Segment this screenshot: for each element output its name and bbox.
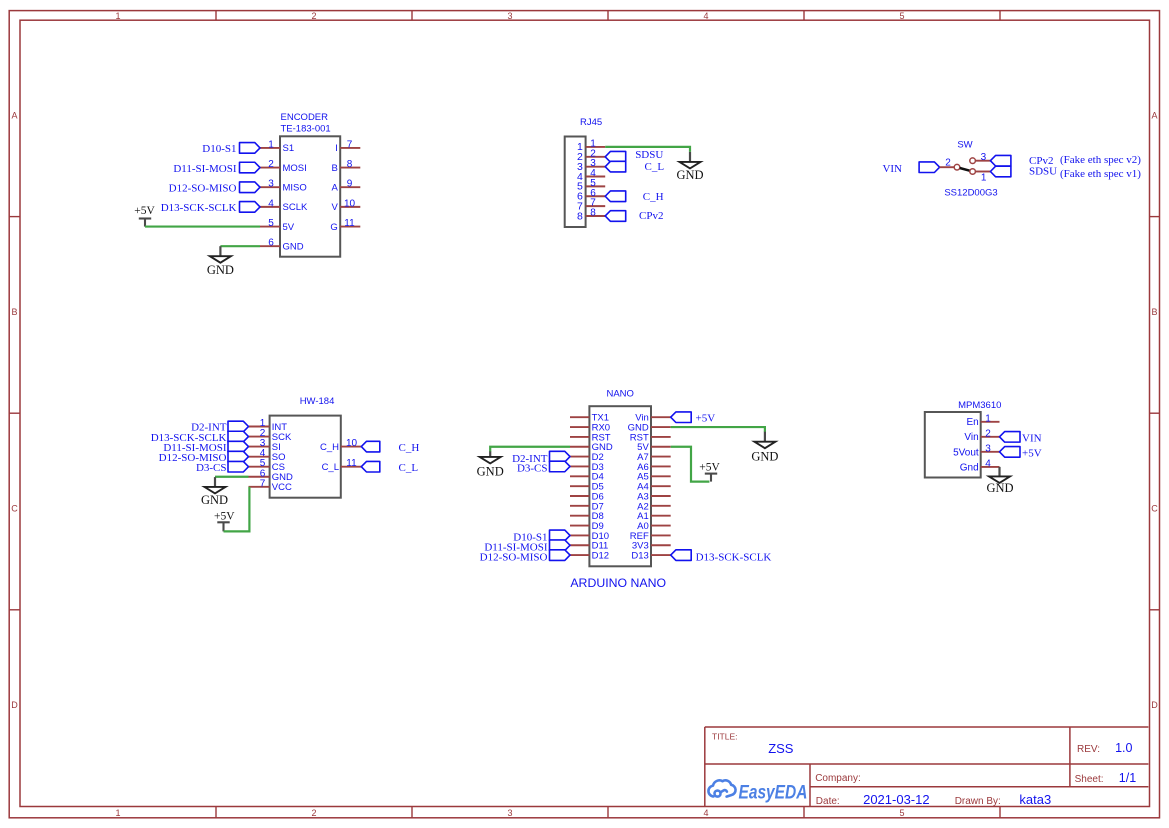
net port D11-SI-MOSI (173, 162, 260, 175)
svg-text:GND: GND (201, 493, 228, 507)
RJ45 pin 3 (577, 158, 605, 173)
svg-text:2021-03-12: 2021-03-12 (863, 792, 930, 807)
svg-text:S1: S1 (283, 143, 295, 154)
net port D2-INT (nano) (512, 451, 570, 465)
ground symbol (mpm3610) (986, 467, 1013, 495)
svg-text:C_L: C_L (322, 462, 339, 473)
svg-text:D10-S1: D10-S1 (202, 143, 236, 155)
svg-text:MPM3610: MPM3610 (958, 400, 1001, 411)
svg-text:2: 2 (985, 428, 991, 439)
NANO left pin D9 (570, 521, 604, 532)
MPM3610 pin 1 En (966, 413, 999, 428)
connector ENCODER TE-183-001 (280, 112, 340, 257)
svg-text:ARDUINO NANO: ARDUINO NANO (570, 576, 666, 590)
svg-text:+5V: +5V (696, 413, 716, 425)
NANO right pin A2 (637, 501, 671, 512)
RJ45 pin 5 (577, 178, 605, 193)
MPM3610 pin 2 Vin (964, 428, 999, 443)
NANO right pin 3V3 (632, 541, 671, 552)
RJ45 pin 8 (577, 207, 605, 222)
net port D12-SO-MISO (hw-184) (159, 451, 249, 464)
ENCODER pin 9 A (331, 179, 360, 194)
NANO right pin A1 (637, 511, 671, 522)
HW-184 pin 7 VCC (249, 478, 292, 493)
RJ45 pin 7 (577, 198, 605, 213)
svg-text:GND: GND (751, 449, 778, 463)
svg-text:B: B (331, 163, 337, 174)
svg-text:I: I (335, 143, 338, 154)
svg-text:8: 8 (590, 207, 596, 218)
svg-text:B: B (1151, 307, 1157, 317)
svg-text:MOSI: MOSI (283, 163, 307, 174)
wire RJ45 pin1 to GND (605, 147, 690, 152)
wire nano 5V to +5V (671, 447, 710, 482)
svg-text:8: 8 (577, 210, 583, 222)
ENCODER pin 3 MISO (260, 179, 307, 194)
svg-text:D13: D13 (631, 551, 648, 562)
svg-text:6: 6 (268, 238, 274, 249)
svg-text:+5V: +5V (134, 205, 155, 217)
svg-text:GND: GND (676, 168, 703, 182)
HW-184 pin 10 C_H (320, 438, 361, 453)
+5V power symbol (hw-184) (214, 511, 235, 532)
svg-text:5: 5 (899, 11, 904, 21)
svg-text:CPv2: CPv2 (639, 210, 663, 222)
net port D10-S1 (nano) (513, 530, 570, 544)
svg-text:C: C (11, 504, 18, 514)
net port +5V (mpm3610) (1000, 447, 1042, 460)
NANO left pin D5 (570, 482, 604, 493)
net port D13-SCK-SCLK (hw-184) (151, 431, 249, 444)
svg-text:GND: GND (283, 242, 304, 253)
RJ45 pin 4 (577, 168, 605, 183)
svg-text:Vin: Vin (964, 432, 978, 443)
svg-text:2: 2 (945, 158, 951, 169)
ENCODER pin 4 SCLK (260, 198, 308, 213)
NANO left pin GND (570, 442, 613, 453)
net port CPv2 (rj45 pin 8) (605, 210, 663, 222)
wire +5V to hw-184 VCC (224, 487, 250, 532)
svg-text:9: 9 (347, 179, 353, 190)
svg-text:TE-183-001: TE-183-001 (281, 123, 331, 134)
svg-text:1/1: 1/1 (1119, 771, 1136, 785)
NANO right pin 5V (637, 442, 671, 453)
NANO left pin D10 (570, 531, 609, 542)
net port D3-CS (nano) (517, 461, 570, 475)
svg-text:SW: SW (957, 139, 972, 150)
svg-text:3: 3 (507, 11, 512, 21)
ground symbol (nano right) (751, 432, 778, 464)
ENCODER pin 6 GND (260, 238, 304, 253)
svg-text:1: 1 (115, 11, 120, 21)
svg-text:GND: GND (477, 465, 504, 479)
ENCODER pin 8 B (331, 159, 360, 174)
svg-text:D12: D12 (592, 551, 609, 562)
svg-text:3: 3 (507, 808, 512, 818)
svg-text:GND: GND (986, 481, 1013, 495)
wire hw-184 GND pin to ground (215, 476, 249, 478)
EasyEDA logo (708, 780, 807, 803)
wire +5V to encoder pin 5 (145, 225, 260, 227)
svg-text:NANO: NANO (606, 389, 633, 400)
svg-text:3: 3 (981, 152, 987, 163)
svg-text:Gnd: Gnd (960, 462, 979, 473)
ground symbol (rj45) (676, 152, 703, 182)
title block values (768, 741, 1136, 807)
svg-text:REV:: REV: (1077, 744, 1100, 755)
net port C_L (rj45 pin 3) (605, 161, 664, 173)
svg-text:3: 3 (985, 443, 991, 454)
svg-text:1: 1 (268, 139, 274, 150)
svg-text:kata3: kata3 (1019, 792, 1051, 807)
svg-text:C_L: C_L (399, 462, 419, 474)
switch SW SS12D00G3 (944, 139, 997, 198)
svg-text:5Vout: 5Vout (953, 447, 979, 458)
NANO left pin D2 (570, 452, 604, 463)
svg-text:V: V (331, 202, 338, 213)
svg-text:1: 1 (115, 808, 120, 818)
NANO right pin A4 (637, 482, 671, 493)
svg-text:En: En (966, 417, 978, 428)
svg-text:7: 7 (347, 139, 353, 150)
net port D13-SCK-SCLK (nano D13) (671, 550, 772, 564)
svg-text:VIN: VIN (882, 163, 902, 175)
svg-text:MISO: MISO (283, 183, 307, 194)
svg-text:5: 5 (268, 218, 274, 229)
MPM3610 pin 4 Gnd (960, 458, 1000, 473)
svg-text:D3-CS: D3-CS (517, 463, 548, 475)
svg-text:VIN: VIN (1022, 432, 1042, 444)
svg-text:D3-CS: D3-CS (196, 462, 227, 474)
NANO left pin D3 (570, 462, 604, 473)
RJ45 pin 1 (577, 138, 605, 153)
net port C_H (rj45 pin 6) (605, 191, 663, 203)
svg-text:G: G (330, 222, 337, 233)
net port D11-SI-MOSI (nano) (484, 540, 570, 554)
ENCODER pin 1 S1 (260, 139, 294, 154)
svg-text:GND: GND (207, 263, 234, 277)
MPM3610 pin 3 5Vout (953, 443, 999, 458)
title block labels (712, 731, 1104, 807)
NANO right pin Vin (635, 413, 670, 424)
net port VIN (mpm3610) (1000, 432, 1042, 445)
svg-text:RJ45: RJ45 (580, 117, 602, 128)
svg-text:VCC: VCC (272, 482, 292, 493)
+5V power symbol (nano) (699, 462, 720, 482)
svg-text:Date:: Date: (816, 796, 840, 807)
net port +5V (nano Vin) (671, 412, 716, 425)
NANO left pin D4 (570, 472, 604, 483)
svg-text:8: 8 (347, 159, 353, 170)
svg-text:D11-SI-MOSI: D11-SI-MOSI (173, 163, 236, 175)
NANO right pin A5 (637, 472, 671, 483)
NANO left pin RST (570, 432, 611, 443)
connector RJ45 (565, 117, 602, 227)
svg-text:2: 2 (311, 808, 316, 818)
svg-text:4: 4 (703, 11, 708, 21)
module MPM3610 (925, 400, 1002, 478)
svg-text:D12-SO-MISO: D12-SO-MISO (169, 182, 237, 194)
svg-text:SDSU: SDSU (635, 149, 663, 161)
svg-text:5V: 5V (283, 222, 295, 233)
net port D12-SO-MISO (169, 182, 260, 195)
net port C_L (hw-184 pin 11) (361, 461, 418, 474)
HW-184 pin 3 SI (249, 438, 281, 453)
svg-text:EasyEDA: EasyEDA (739, 781, 808, 803)
NANO left pin D8 (570, 511, 604, 522)
svg-text:A: A (11, 111, 17, 121)
net port D2-INT (hw-184) (191, 421, 248, 434)
ENCODER pin 2 MOSI (260, 159, 307, 174)
svg-text:4: 4 (985, 458, 991, 469)
wire nano GND(right) to ground (671, 427, 765, 432)
net port D12-SO-MISO (nano) (480, 550, 570, 564)
NANO right pin RST (630, 432, 671, 443)
+5V power symbol (encoder) (134, 205, 155, 226)
wire nano GND(left) to ground (490, 447, 570, 452)
svg-text:Drawn By:: Drawn By: (955, 796, 1001, 807)
svg-text:1.0: 1.0 (1115, 741, 1132, 755)
ground symbol (nano left) (477, 451, 504, 478)
NANO right pin D13 (631, 551, 670, 562)
ENCODER pin 11 G (330, 218, 360, 233)
svg-text:ZSS: ZSS (768, 741, 794, 756)
svg-text:5: 5 (899, 808, 904, 818)
HW-184 pin 2 SCK (249, 428, 292, 443)
svg-text:SDSU: SDSU (1029, 165, 1057, 177)
svg-text:C_H: C_H (320, 442, 339, 453)
net port SDSU (rj45 pin 2) (605, 149, 663, 162)
svg-text:2: 2 (268, 159, 274, 170)
net port D3-CS (hw-184) (196, 461, 249, 474)
svg-text:D: D (1151, 700, 1158, 710)
ENCODER pin 7 I (335, 139, 360, 154)
module HW-184 (270, 396, 341, 498)
svg-text:10: 10 (346, 438, 358, 449)
NANO left pin D6 (570, 491, 604, 502)
HW-184 pin 11 C_L (322, 458, 362, 473)
net port SDSU (switch pin 1) (990, 165, 1141, 180)
ground symbol (hw-184) (201, 477, 228, 507)
svg-text:1: 1 (985, 413, 991, 424)
module NANO (Arduino Nano) (589, 389, 651, 567)
svg-text:10: 10 (344, 198, 356, 209)
svg-text:(Fake eth spec v1): (Fake eth spec v1) (1060, 168, 1141, 180)
svg-text:1: 1 (981, 172, 987, 183)
wire encoder pin 6 to GND (220, 245, 260, 247)
svg-text:SS12D00G3: SS12D00G3 (944, 188, 997, 199)
svg-text:11: 11 (344, 218, 355, 229)
svg-text:3: 3 (268, 179, 274, 190)
svg-text:TITLE:: TITLE: (712, 731, 738, 741)
switch pin 2 (940, 158, 960, 171)
switch pin 1 (970, 169, 991, 184)
svg-text:ENCODER: ENCODER (281, 112, 329, 123)
NANO right pin A3 (637, 491, 671, 502)
svg-text:4: 4 (703, 808, 708, 818)
title block (705, 727, 1149, 807)
HW-184 pin 4 SO (249, 448, 286, 463)
ground symbol (encoder) (207, 246, 234, 277)
svg-text:2: 2 (311, 11, 316, 21)
svg-text:C_L: C_L (645, 161, 665, 173)
svg-text:+5V: +5V (699, 462, 720, 474)
svg-text:Sheet:: Sheet: (1075, 774, 1104, 785)
svg-text:+5V: +5V (1022, 447, 1042, 459)
NANO left pin TX1 (570, 413, 609, 424)
switch pin 3 (970, 152, 991, 164)
net port C_H (hw-184 pin 10) (361, 441, 419, 454)
ENCODER pin 5 5V (260, 218, 295, 233)
net port VIN (switch) (882, 162, 939, 175)
NANO right pin GND (628, 422, 671, 433)
NANO right pin A0 (637, 521, 671, 532)
HW-184 pin 5 CS (249, 458, 286, 473)
svg-text:D: D (11, 700, 18, 710)
svg-text:C_H: C_H (399, 442, 420, 454)
HW-184 pin 1 INT (249, 418, 288, 433)
net port CPv2 (switch pin 3) (990, 154, 1141, 167)
switch lever (960, 168, 971, 171)
NANO left pin D7 (570, 501, 604, 512)
net port D11-SI-MOSI (hw-184) (163, 441, 248, 454)
svg-text:A: A (331, 183, 338, 194)
svg-text:7: 7 (260, 478, 266, 489)
svg-text:C: C (1151, 504, 1158, 514)
svg-text:Company:: Company: (815, 773, 861, 784)
net port D10-S1 (202, 143, 260, 156)
NANO left pin D11 (570, 541, 608, 552)
NANO left pin RX0 (570, 422, 610, 433)
svg-text:D13-SCK-SCLK: D13-SCK-SCLK (696, 551, 772, 563)
svg-text:D12-SO-MISO: D12-SO-MISO (480, 551, 548, 563)
RJ45 pin 2 (577, 148, 605, 163)
svg-text:B: B (11, 307, 17, 317)
NANO left pin D12 (570, 551, 609, 562)
NANO right pin REF (630, 531, 671, 542)
svg-text:(Fake eth spec v2): (Fake eth spec v2) (1060, 154, 1141, 166)
svg-text:4: 4 (268, 198, 274, 209)
HW-184 pin 6 GND (249, 468, 294, 483)
svg-text:HW-184: HW-184 (300, 396, 335, 407)
NANO right pin A7 (637, 452, 671, 463)
NANO right pin A6 (637, 462, 671, 473)
svg-text:SCLK: SCLK (283, 202, 308, 213)
net port D13-SCK-SCLK (161, 202, 260, 215)
svg-text:C_H: C_H (643, 191, 664, 203)
svg-text:+5V: +5V (214, 511, 235, 523)
ENCODER pin 10 V (331, 198, 360, 213)
svg-text:11: 11 (346, 458, 357, 469)
svg-text:A: A (1151, 111, 1157, 121)
svg-text:D13-SCK-SCLK: D13-SCK-SCLK (161, 202, 237, 214)
RJ45 pin 6 (577, 188, 605, 203)
